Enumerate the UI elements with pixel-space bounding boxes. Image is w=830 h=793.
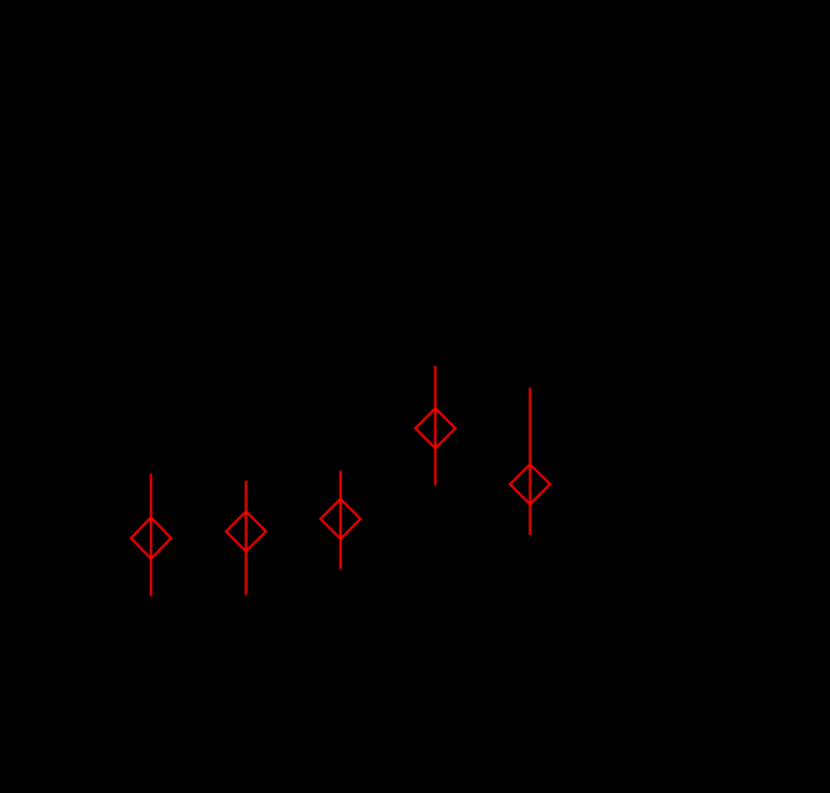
diamond marker 3	[321, 499, 361, 539]
error bar 4	[434, 366, 436, 485]
diamond marker 5	[510, 464, 550, 504]
error bar 5	[529, 388, 531, 535]
diamond marker 1	[131, 517, 171, 559]
error bar 3	[339, 471, 341, 569]
error bar 1	[150, 474, 152, 596]
diamond marker 2	[226, 511, 266, 551]
error bar 2	[245, 481, 247, 595]
diamond marker 4	[415, 408, 455, 448]
